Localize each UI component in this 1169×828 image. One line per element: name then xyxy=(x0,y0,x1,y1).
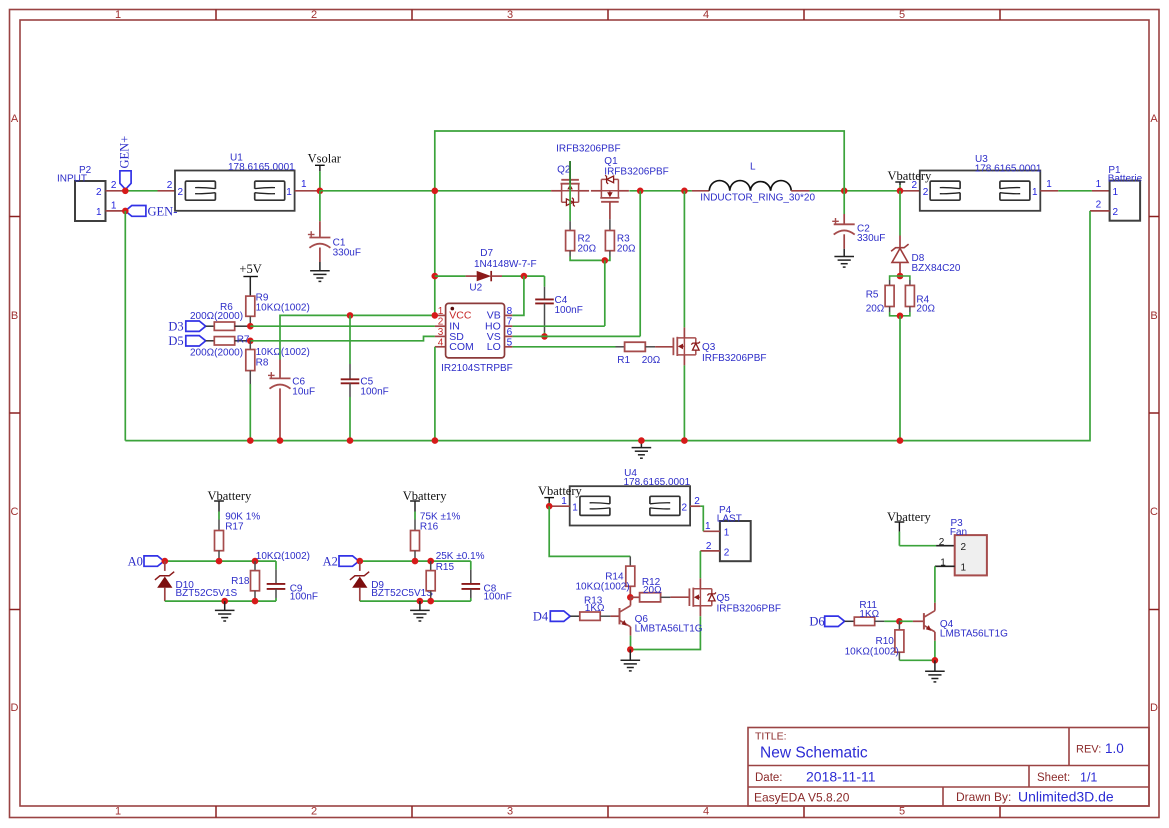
fuse holder U1 xyxy=(158,152,296,210)
resistor R18 xyxy=(231,551,310,601)
svg-text:20Ω: 20Ω xyxy=(866,304,885,315)
junction A2 xyxy=(357,558,364,565)
transistor Q4 xyxy=(913,603,1008,641)
svg-text:1: 1 xyxy=(115,9,121,21)
svg-text:2: 2 xyxy=(96,187,102,198)
svg-text:100nF: 100nF xyxy=(360,387,388,398)
svg-text:8: 8 xyxy=(507,306,513,317)
svg-text:TITLE:: TITLE: xyxy=(755,731,787,743)
title block Drawn By label xyxy=(956,790,1011,804)
svg-text:10KΩ(1002): 10KΩ(1002) xyxy=(845,647,899,658)
wire Vsolar stub xyxy=(319,171,321,191)
svg-text:IR2104STRPBF: IR2104STRPBF xyxy=(441,363,513,374)
svg-text:R10: R10 xyxy=(876,636,895,647)
svg-text:2: 2 xyxy=(694,496,700,507)
svg-text:IRFB3206PBF: IRFB3206PBF xyxy=(717,603,781,614)
net flag D5 xyxy=(168,334,205,348)
svg-text:L: L xyxy=(750,161,756,172)
pin 2 of U3 xyxy=(912,180,929,198)
connector P1 xyxy=(1092,165,1143,221)
transistor Q1 xyxy=(591,156,669,219)
resistor R17 xyxy=(215,511,261,550)
svg-text:2: 2 xyxy=(939,537,945,548)
title block REV label xyxy=(1076,744,1101,756)
svg-text:R8: R8 xyxy=(256,358,269,369)
svg-text:2018-11-11: 2018-11-11 xyxy=(806,769,876,785)
pin 1 of P1 xyxy=(1096,179,1119,198)
net flag D6 xyxy=(809,615,844,629)
wire P2.2 to U1.2 xyxy=(125,190,157,192)
svg-text:LAST: LAST xyxy=(717,514,742,525)
svg-text:3: 3 xyxy=(507,806,513,818)
svg-text:2: 2 xyxy=(1113,207,1119,218)
wire GEN- down to ground bus xyxy=(124,211,126,441)
wire P1.2 to ground bus xyxy=(125,211,1090,441)
svg-text:1: 1 xyxy=(438,306,444,317)
svg-text:330uF: 330uF xyxy=(333,247,361,258)
pin 5 of U2 LO xyxy=(487,337,513,353)
connector P3 xyxy=(950,518,987,576)
ground Q4 xyxy=(925,660,945,682)
wire A2 bottom row xyxy=(360,600,471,602)
pin 1 of U1 xyxy=(286,179,320,198)
wire Vbattery to D8 xyxy=(899,191,901,236)
power flag +5V xyxy=(239,262,261,277)
transistor Q2 xyxy=(551,143,620,206)
svg-text:1: 1 xyxy=(111,200,117,211)
svg-text:COM: COM xyxy=(449,341,474,353)
wire R10 to gnd row xyxy=(899,652,935,660)
svg-text:1: 1 xyxy=(724,528,730,539)
svg-text:INPUT: INPUT xyxy=(57,174,87,185)
diode D7 xyxy=(435,248,545,281)
ground Q6 xyxy=(621,650,641,671)
svg-text:2: 2 xyxy=(706,541,712,552)
svg-text:20Ω: 20Ω xyxy=(578,244,597,255)
diode D10 xyxy=(155,561,238,601)
svg-text:2: 2 xyxy=(167,180,173,191)
wire Q2 gate to R2 xyxy=(569,161,571,230)
junction R2 R3 HO xyxy=(602,257,609,264)
junction COM bus xyxy=(432,437,439,444)
pin 1 of U4 xyxy=(549,496,578,513)
resistor R6 xyxy=(190,302,250,331)
pin 2 of P3 xyxy=(939,537,967,553)
wire R16 to node xyxy=(414,551,416,561)
svg-text:5: 5 xyxy=(899,806,905,818)
label U2 xyxy=(469,283,482,294)
svg-text:Vbattery: Vbattery xyxy=(888,169,932,183)
junction Q6 emitter gnd xyxy=(627,646,634,653)
svg-text:REV:: REV: xyxy=(1076,744,1101,756)
svg-text:5: 5 xyxy=(899,9,905,21)
svg-text:2: 2 xyxy=(923,187,929,198)
svg-text:178.6165.0001: 178.6165.0001 xyxy=(228,162,295,173)
title block Date value xyxy=(806,769,876,785)
wire VS riser xyxy=(639,191,641,337)
junction VS node xyxy=(637,188,644,195)
svg-text:2: 2 xyxy=(311,9,317,21)
title block TITLE label xyxy=(755,731,787,743)
svg-text:3: 3 xyxy=(507,9,513,21)
pin 1 of P3 xyxy=(935,557,967,573)
svg-text:1/1: 1/1 xyxy=(1080,771,1097,785)
pin 3 of U2 SD xyxy=(435,327,464,343)
wire Q3 source to bus xyxy=(683,365,685,440)
net flag A2 xyxy=(323,554,359,568)
wire Q5 source down xyxy=(630,616,700,649)
wire A0 node xyxy=(164,560,276,562)
junction R5R4 bus xyxy=(897,437,904,444)
svg-text:1: 1 xyxy=(301,179,307,190)
svg-text:D: D xyxy=(11,702,19,714)
wire LO to R1 xyxy=(512,346,615,348)
wire Q6 emitter to gnd xyxy=(630,636,632,650)
svg-text:20Ω: 20Ω xyxy=(916,304,935,315)
capacitor C6 xyxy=(268,360,315,441)
junction GEN- xyxy=(122,208,129,215)
svg-text:1KΩ: 1KΩ xyxy=(859,609,879,620)
svg-text:R17: R17 xyxy=(225,522,244,533)
junction Vbattery xyxy=(897,188,904,195)
junction C5 top xyxy=(347,312,354,319)
svg-text:EasyEDA V5.8.20: EasyEDA V5.8.20 xyxy=(754,791,850,805)
svg-text:Date:: Date: xyxy=(755,772,783,784)
svg-text:LMBTA56LT1G: LMBTA56LT1G xyxy=(940,629,1008,640)
wire switch node to Q3 drain xyxy=(683,191,685,328)
transistor Q6 xyxy=(610,598,702,636)
svg-text:1N4148W-7-F: 1N4148W-7-F xyxy=(474,259,537,270)
wire Vbattery to R14 xyxy=(549,506,630,566)
wire Q4 emitter down xyxy=(934,641,936,661)
junction GEN+ xyxy=(122,188,129,195)
title block frame xyxy=(748,728,1149,807)
svg-text:Fan: Fan xyxy=(950,527,967,538)
wire VB to D7 xyxy=(512,276,524,315)
pin 6 of U2 VS xyxy=(487,327,513,343)
fuse holder U4 xyxy=(570,468,691,526)
svg-text:4: 4 xyxy=(703,9,709,21)
svg-text:D7: D7 xyxy=(480,248,493,259)
svg-text:C: C xyxy=(11,506,19,518)
connector P4 xyxy=(717,505,751,561)
svg-text:New Schematic: New Schematic xyxy=(760,745,868,762)
svg-text:20Ω: 20Ω xyxy=(643,585,662,596)
svg-text:200Ω(2000): 200Ω(2000) xyxy=(190,311,243,322)
svg-text:178.6165.0001: 178.6165.0001 xyxy=(624,477,691,488)
connector P2 xyxy=(57,165,106,221)
svg-text:1: 1 xyxy=(1046,179,1052,190)
svg-text:D: D xyxy=(1150,702,1158,714)
pin 4 of U2 COM xyxy=(435,337,474,353)
svg-text:10KΩ(1002): 10KΩ(1002) xyxy=(256,303,310,314)
svg-text:R16: R16 xyxy=(420,522,439,533)
svg-text:B: B xyxy=(11,310,18,322)
svg-text:6: 6 xyxy=(507,327,513,338)
svg-text:D6: D6 xyxy=(809,615,824,629)
pin 2 of U2 IN xyxy=(435,317,460,333)
junction R18 top xyxy=(252,558,259,565)
svg-text:2: 2 xyxy=(961,542,967,553)
pin 7 of U2 HO xyxy=(485,317,513,333)
svg-text:1: 1 xyxy=(940,557,946,568)
svg-text:IRFB3206PBF: IRFB3206PBF xyxy=(702,353,766,364)
svg-text:1: 1 xyxy=(572,503,578,514)
title block REV value xyxy=(1105,741,1124,756)
resistor R14 xyxy=(576,566,635,593)
svg-text:1KΩ: 1KΩ xyxy=(585,603,605,614)
svg-text:Vbattery: Vbattery xyxy=(887,510,931,524)
svg-text:100nF: 100nF xyxy=(290,591,318,602)
svg-text:IRFB3206PBF: IRFB3206PBF xyxy=(604,166,668,177)
wire Vbattery to R16 xyxy=(414,512,416,531)
svg-text:C: C xyxy=(1150,506,1158,518)
svg-text:Vbattery: Vbattery xyxy=(403,489,447,503)
wire VS line xyxy=(512,335,640,337)
wire R5R4 to ground bus xyxy=(899,316,901,441)
ground bus center ground xyxy=(632,441,652,459)
title block Date label xyxy=(755,772,783,784)
junction gnd A2 xyxy=(417,598,424,605)
svg-text:Drawn By:: Drawn By: xyxy=(956,790,1011,804)
wire U3.1 to P1.1 xyxy=(1058,190,1092,192)
wire R2/R3 bottoms xyxy=(570,251,610,261)
wire R8 to bus xyxy=(249,371,251,441)
wire HO to R2R3 xyxy=(512,325,604,327)
svg-text:178.6165.0001: 178.6165.0001 xyxy=(975,164,1042,175)
wire R5 R4 top xyxy=(890,276,910,285)
svg-text:10KΩ(1002): 10KΩ(1002) xyxy=(256,347,310,358)
junction R9 R6 xyxy=(247,323,254,330)
svg-text:1: 1 xyxy=(705,521,711,532)
svg-text:25K ±0.1%: 25K ±0.1% xyxy=(436,551,485,562)
pin 1 of U3 xyxy=(1032,179,1058,198)
capacitor C9 xyxy=(267,561,318,602)
svg-text:100nF: 100nF xyxy=(484,591,512,602)
net label Vbattery top xyxy=(888,169,932,185)
ground A2 block xyxy=(410,601,430,621)
svg-text:3: 3 xyxy=(438,327,444,338)
resistor R4 xyxy=(905,285,935,314)
junction D7 anode xyxy=(432,273,439,280)
wire L to Vbattery xyxy=(810,190,902,192)
resistor R3 xyxy=(605,219,636,254)
svg-text:330uF: 330uF xyxy=(857,233,885,244)
pin 1 of P4 xyxy=(703,521,729,539)
wire SD line xyxy=(250,336,435,340)
svg-text:+5V: +5V xyxy=(239,262,261,276)
svg-text:D5: D5 xyxy=(168,334,183,348)
svg-text:Q3: Q3 xyxy=(702,342,716,353)
resistor R5 xyxy=(866,285,894,314)
junction R15 bottom xyxy=(427,598,434,605)
svg-text:IRFB3206PBF: IRFB3206PBF xyxy=(556,143,620,154)
resistor R15 xyxy=(426,551,484,601)
svg-text:10uF: 10uF xyxy=(292,387,315,398)
wire P3.1 to Q4 collector xyxy=(934,566,936,603)
junction A0 xyxy=(162,558,169,565)
svg-text:20Ω: 20Ω xyxy=(642,355,661,366)
junction R17 bottom xyxy=(216,558,223,565)
junction R8 bus xyxy=(247,437,254,444)
svg-text:2: 2 xyxy=(111,180,117,191)
junction R15 top xyxy=(427,558,434,565)
resistor R13 xyxy=(570,596,610,621)
title block Sheet label xyxy=(1037,772,1070,784)
resistor R10 xyxy=(845,621,904,657)
svg-text:1: 1 xyxy=(561,496,567,507)
svg-text:4: 4 xyxy=(703,806,709,818)
title block title value xyxy=(760,745,868,762)
svg-text:A: A xyxy=(11,113,19,125)
transistor Q3 xyxy=(655,327,766,365)
svg-text:5: 5 xyxy=(507,337,513,348)
svg-text:Vsolar: Vsolar xyxy=(308,152,342,166)
junction C6 bus xyxy=(277,437,284,444)
junction R18 bottom xyxy=(252,598,259,605)
fuse holder U3 xyxy=(902,154,1042,211)
net label Vbattery A0 block xyxy=(208,489,252,512)
capacitor C1 xyxy=(308,191,361,271)
svg-text:R15: R15 xyxy=(436,562,455,573)
svg-text:2: 2 xyxy=(178,187,184,198)
op-amp U2 IR2104 body xyxy=(441,303,513,373)
wire R11 to Q4 base xyxy=(899,620,913,622)
svg-text:A2: A2 xyxy=(323,554,338,568)
net flag A0 xyxy=(128,554,164,568)
wire A0 bottom row xyxy=(165,600,276,602)
svg-text:LMBTA56LT1G: LMBTA56LT1G xyxy=(635,623,703,634)
svg-text:Batterie: Batterie xyxy=(1108,174,1143,185)
capacitor C4 xyxy=(535,276,583,336)
svg-text:A0: A0 xyxy=(128,554,143,568)
svg-text:2: 2 xyxy=(724,548,730,559)
pin 2 of P2 xyxy=(96,180,125,198)
wire HO riser xyxy=(604,260,606,326)
net flag GEN- xyxy=(125,204,177,218)
resistor R9 xyxy=(246,277,310,317)
wire U4.2 to P4.1 xyxy=(700,506,703,531)
svg-text:Vbattery: Vbattery xyxy=(538,484,582,498)
svg-text:BZT52C5V1S: BZT52C5V1S xyxy=(176,588,238,599)
wire VCC riser xyxy=(434,191,436,316)
junction Q3 bus xyxy=(681,437,688,444)
svg-text:R5: R5 xyxy=(866,290,879,301)
junction R7 R8 xyxy=(247,338,254,345)
svg-text:10KΩ(1002): 10KΩ(1002) xyxy=(256,551,310,562)
svg-text:LO: LO xyxy=(487,341,501,353)
svg-text:4: 4 xyxy=(438,337,444,348)
wire Vbattery U4 stub xyxy=(548,503,550,507)
diode D8 xyxy=(891,236,961,277)
junction U4 pin1 xyxy=(546,503,553,510)
svg-text:2: 2 xyxy=(1096,200,1102,211)
wire VCC riser to D7 xyxy=(0,0,1,1)
wire U1.1 to Q2 xyxy=(320,190,551,192)
junction C5 bus xyxy=(347,437,354,444)
wire IN line xyxy=(250,325,435,327)
wire COM down xyxy=(434,347,436,441)
svg-text:A: A xyxy=(1150,113,1158,125)
junction Q4 emitter xyxy=(932,657,939,664)
svg-text:BZX84C20: BZX84C20 xyxy=(912,263,961,274)
wire Q1 to switch node xyxy=(629,190,692,192)
resistor R16 xyxy=(411,511,461,550)
ground for C2 xyxy=(834,257,854,268)
junction R11 R10 xyxy=(896,618,903,625)
svg-text:20Ω: 20Ω xyxy=(617,244,636,255)
resistor R12 xyxy=(630,577,670,602)
svg-text:Q2: Q2 xyxy=(557,165,571,176)
junction gnd A0 xyxy=(221,598,228,605)
capacitor C5 xyxy=(341,315,389,440)
pin 1 of U2 VCC xyxy=(435,306,472,322)
pin 2 of P4 xyxy=(700,541,729,559)
svg-text:2: 2 xyxy=(681,503,687,514)
junction D7 VB xyxy=(521,273,528,280)
resistor R8 xyxy=(246,341,310,371)
svg-text:D4: D4 xyxy=(533,610,549,624)
wire R17 to node xyxy=(218,551,220,561)
capacitor C8 xyxy=(462,561,512,602)
net label Vbattery A2 block xyxy=(403,489,447,512)
junction gnd bus xyxy=(638,437,645,444)
title block EasyEDA version xyxy=(754,791,850,805)
transistor Q5 xyxy=(670,578,781,616)
svg-text:INDUCTOR_RING_30*20: INDUCTOR_RING_30*20 xyxy=(700,193,815,204)
net label Vbattery U4 xyxy=(538,484,582,503)
svg-text:100nF: 100nF xyxy=(555,305,583,316)
wire top bus xyxy=(435,131,844,191)
net flag D3 xyxy=(168,320,205,334)
pin 2 of P1 xyxy=(1090,200,1119,219)
junction C4 VS xyxy=(541,333,548,340)
svg-text:GEN+: GEN+ xyxy=(117,136,131,169)
resistor R1 xyxy=(616,342,661,366)
svg-text:B: B xyxy=(1150,310,1157,322)
svg-text:Sheet:: Sheet: xyxy=(1037,772,1070,784)
title block Sheet value xyxy=(1080,771,1097,785)
title block Drawn By value xyxy=(1018,789,1114,805)
resistor R7 xyxy=(190,334,250,358)
junction R5R4 bottom xyxy=(897,313,904,320)
junction U2 pin1 xyxy=(432,312,439,319)
wire Vbattery to P3.2 xyxy=(899,532,954,546)
wire VCC line xyxy=(280,315,435,359)
svg-text:D3: D3 xyxy=(168,320,183,334)
svg-text:Unlimited3D.de: Unlimited3D.de xyxy=(1018,789,1114,805)
svg-text:GEN-: GEN- xyxy=(148,204,178,218)
resistor R11 xyxy=(845,600,900,625)
pin 2 of U4 xyxy=(681,496,700,513)
svg-text:1: 1 xyxy=(115,806,121,818)
net label Vsolar xyxy=(308,152,342,172)
pin 2 of U1 xyxy=(167,180,184,198)
junction Vsolar xyxy=(317,188,324,195)
ground A0 block xyxy=(215,601,235,621)
junction Vsolar VCC riser xyxy=(432,188,439,195)
svg-text:1: 1 xyxy=(961,562,967,573)
wire P4.2 to Q5 drain xyxy=(699,551,701,578)
net flag D4 xyxy=(533,610,570,624)
net label Vbattery fan xyxy=(887,510,931,531)
svg-text:2: 2 xyxy=(311,806,317,818)
svg-text:10KΩ(1002): 10KΩ(1002) xyxy=(576,582,630,593)
svg-text:200Ω(2000): 200Ω(2000) xyxy=(190,347,243,358)
resistor R2 xyxy=(566,231,597,255)
pin 1 of P2 xyxy=(96,200,125,218)
wire R14 to Q6 collector xyxy=(629,586,631,597)
